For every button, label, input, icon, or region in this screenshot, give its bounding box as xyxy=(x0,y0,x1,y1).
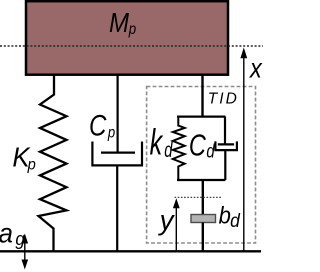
cup xyxy=(92,142,142,166)
spring kd xyxy=(173,117,185,180)
TID bottom bar xyxy=(177,179,225,181)
label y xyxy=(158,204,176,235)
svg-text:M: M xyxy=(109,6,129,38)
svg-text:d: d xyxy=(206,139,215,162)
svg-text:d: d xyxy=(230,210,241,232)
wire: inerter to ground xyxy=(202,223,204,252)
damper Cp xyxy=(92,75,142,251)
svg-text:C: C xyxy=(89,109,107,142)
cup xyxy=(215,141,237,150)
label Kp xyxy=(12,141,36,173)
inerter bd xyxy=(191,215,216,223)
piston plate xyxy=(218,143,234,145)
spring Kp xyxy=(39,75,67,251)
label kd xyxy=(150,122,174,163)
svg-text:p: p xyxy=(107,124,115,141)
arrow ag (double headed) xyxy=(22,234,29,270)
label ag xyxy=(0,218,25,250)
rod xyxy=(116,75,118,153)
svg-text:k: k xyxy=(150,122,164,163)
label Cp xyxy=(89,109,115,142)
label x xyxy=(248,53,263,83)
label bd xyxy=(219,201,241,231)
mass Mp xyxy=(26,1,228,75)
svg-text:TID: TID xyxy=(208,90,237,107)
dotted reference line (y datum) xyxy=(175,196,223,198)
label Mp xyxy=(109,6,136,38)
svg-text:C: C xyxy=(189,127,207,162)
damper cd xyxy=(215,117,237,180)
piston plate xyxy=(101,152,135,154)
ground line xyxy=(0,250,261,252)
dashed reference line (x datum) xyxy=(0,45,263,47)
svg-text:b: b xyxy=(219,201,231,228)
wire: bottom bar to inerter xyxy=(202,180,204,215)
svg-text:y: y xyxy=(158,204,176,235)
svg-text:x: x xyxy=(248,53,263,83)
svg-text:a: a xyxy=(0,218,13,249)
svg-text:p: p xyxy=(27,156,37,174)
TID dashed box xyxy=(147,87,256,244)
wire: mass to TID assembly xyxy=(201,75,203,117)
arrow x xyxy=(240,48,247,252)
lower rod xyxy=(224,150,226,180)
label cd xyxy=(189,127,216,162)
arrow y xyxy=(173,198,180,251)
lower rod xyxy=(116,165,118,251)
svg-text:p: p xyxy=(128,21,136,38)
rod xyxy=(224,117,226,145)
TID top bar xyxy=(177,115,225,117)
svg-text:d: d xyxy=(164,138,173,161)
